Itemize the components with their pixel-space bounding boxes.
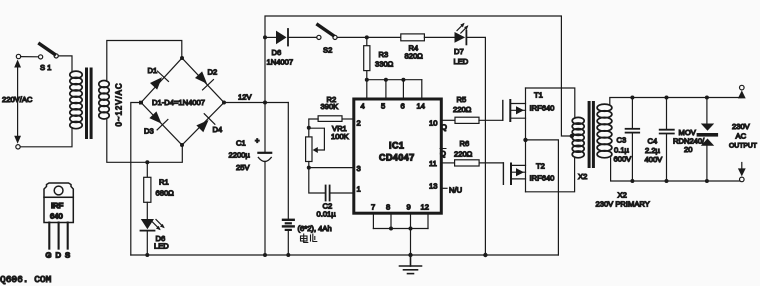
svg-text:20: 20 [684, 145, 692, 154]
wire X2 secondary top rail [610, 98, 742, 105]
resistor R1 [144, 160, 174, 218]
svg-text:D1-D4=1N4007: D1-D4=1N4007 [152, 98, 205, 107]
svg-text:G: G [46, 251, 52, 260]
resistor R5 [441, 95, 503, 123]
svg-text:220Ω: 220Ω [453, 105, 472, 114]
svg-text:330Ω: 330Ω [375, 60, 394, 69]
wire X2 secondary bottom rail [611, 158, 742, 181]
svg-text:IRF: IRF [51, 201, 64, 210]
svg-text:D2: D2 [208, 68, 218, 77]
wire T2 source to X2 bottom [526, 158, 575, 192]
node pin3 dot [307, 166, 311, 170]
svg-text:680Ω: 680Ω [156, 189, 175, 198]
svg-text:5: 5 [381, 102, 385, 111]
svg-text:10: 10 [429, 119, 437, 128]
AC source 220V [14, 54, 21, 149]
svg-text:R1: R1 [159, 178, 169, 187]
svg-text:C4: C4 [648, 137, 658, 146]
switch S2 [317, 25, 337, 55]
svg-text:IRF640: IRF640 [530, 174, 555, 183]
svg-text:2: 2 [357, 119, 361, 128]
wire 12V rail [224, 102, 288, 104]
svg-text:D6: D6 [272, 48, 282, 57]
pin 13 stub and N/U label [441, 186, 462, 195]
wire primary bottom to source [20, 129, 72, 147]
svg-text:11: 11 [429, 159, 437, 168]
svg-text:12: 12 [421, 203, 429, 212]
svg-text:Q606. COM: Q606. COM [0, 274, 52, 285]
resistor R2 [309, 95, 353, 128]
transistor T1 IRF640 [503, 88, 555, 140]
svg-text:Q: Q [441, 123, 447, 132]
svg-text:400V: 400V [645, 155, 664, 164]
svg-text:D4: D4 [213, 125, 223, 134]
wire bottom rail [131, 254, 559, 256]
svg-text:230V: 230V [732, 122, 751, 131]
transformer X2 primary winding [572, 117, 584, 157]
svg-text:OUTPUT: OUTPUT [729, 143, 757, 150]
svg-text:13: 13 [429, 182, 437, 191]
capacitor C2 [309, 168, 354, 219]
wire midpoint to bottom rail [526, 140, 559, 255]
svg-text:R6: R6 [460, 139, 470, 148]
wire secondary top to bridge top [107, 41, 182, 82]
wire T1 drain to X2 top [526, 88, 575, 118]
node dots bottom rail [145, 253, 487, 257]
svg-text:R5: R5 [457, 95, 467, 104]
svg-text:7: 7 [371, 203, 375, 212]
transformer TX1 primary winding [70, 71, 82, 129]
svg-text:(6*2), 4Ah: (6*2), 4Ah [298, 224, 332, 233]
svg-text:100K: 100K [331, 132, 349, 141]
svg-text:D1: D1 [148, 66, 158, 75]
node output terminal top [738, 85, 746, 98]
svg-text:LED: LED [154, 242, 169, 251]
svg-text:IRF640: IRF640 [530, 104, 555, 113]
capacitor C4 [645, 98, 674, 182]
svg-text:IC1: IC1 [389, 141, 404, 151]
svg-text:S: S [65, 251, 70, 260]
resistor R6 [441, 139, 503, 166]
potentiometer VR1 [306, 124, 349, 168]
svg-text:Q: Q [440, 149, 446, 158]
node dot D6 junction [263, 35, 267, 39]
svg-text:C3: C3 [617, 136, 627, 145]
diode D4 [195, 114, 215, 134]
svg-text:AC: AC [736, 132, 747, 141]
varistor MOV [673, 98, 718, 182]
svg-text:390K: 390K [321, 102, 339, 111]
transformer X2 core [588, 101, 595, 168]
svg-text:2200µ: 2200µ [229, 151, 251, 160]
ground [400, 255, 422, 274]
label 230V AC OUTPUT [729, 122, 757, 150]
svg-text:LED: LED [454, 57, 469, 66]
svg-text:8: 8 [386, 203, 390, 212]
svg-text:X2: X2 [578, 172, 587, 181]
node dots output rails [630, 96, 709, 184]
svg-text:12V: 12V [238, 93, 252, 102]
diode D3 [147, 110, 167, 130]
transistor T2 IRF640 [503, 140, 554, 192]
svg-text:820Ω: 820Ω [405, 51, 424, 60]
wire secondary bottom [107, 119, 183, 163]
svg-text:0.01µ: 0.01µ [317, 210, 337, 219]
svg-text:D3: D3 [144, 127, 154, 136]
svg-text:D7: D7 [454, 47, 464, 56]
svg-text:3: 3 [357, 164, 361, 173]
wire S1 to transformer primary [58, 56, 72, 72]
svg-text:600V: 600V [614, 155, 633, 164]
svg-text:9: 9 [407, 203, 411, 212]
node center tap dot [570, 134, 574, 138]
svg-text:S 1: S 1 [40, 63, 51, 72]
svg-text:640: 640 [50, 212, 63, 221]
resistor R4 [401, 34, 455, 60]
svg-text:D: D [56, 251, 62, 260]
svg-text:220V/AC: 220V/AC [2, 95, 33, 104]
svg-text:220Ω: 220Ω [454, 150, 473, 159]
svg-text:14: 14 [417, 102, 425, 111]
diode D2 [193, 70, 213, 90]
wire pin 3 [309, 167, 354, 169]
svg-text:0.1µ: 0.1µ [614, 146, 630, 155]
LED D6 [141, 219, 170, 255]
svg-text:R3: R3 [379, 50, 389, 59]
svg-text:25V: 25V [236, 163, 250, 172]
resistor R3 [364, 37, 394, 79]
wire top rail battery plus to X2 center tap [265, 16, 571, 136]
node Qbar label [440, 149, 446, 159]
diode D1 [148, 71, 168, 91]
svg-text:1: 1 [357, 185, 361, 194]
svg-text:4: 4 [361, 102, 365, 111]
wire bridge minus column [131, 103, 141, 256]
svg-text:2.2µ: 2.2µ [645, 146, 661, 155]
wire bus pins 4 5 6 14 [365, 78, 422, 98]
wire D7 cathode to ground rail [466, 37, 485, 255]
transformer TX1 secondary winding [99, 81, 109, 120]
svg-text:6: 6 [401, 102, 405, 111]
node dots bridge [139, 56, 226, 147]
label battery chinese [301, 234, 317, 243]
node dot 12V [263, 101, 267, 105]
transformer X2 secondary winding [597, 104, 612, 158]
node output terminal bottom [738, 163, 746, 182]
svg-text:N/U: N/U [449, 186, 462, 195]
diode D6 [265, 29, 317, 67]
svg-text:T2: T2 [536, 162, 545, 171]
transformer TX1 core [85, 68, 93, 140]
svg-text:1N4007: 1N4007 [267, 58, 294, 67]
capacitor C1 [229, 103, 272, 256]
wire pins 7 8 9 12 bus [373, 213, 428, 255]
svg-text:+: + [255, 136, 260, 145]
node midpoint dot [523, 138, 527, 142]
svg-text:0~12V/AC: 0~12V/AC [115, 82, 124, 126]
IC IC1 CD4047 body [354, 99, 442, 213]
LED D7 [454, 23, 469, 66]
switch S1 [21, 44, 59, 72]
capacitor C3 [614, 98, 640, 182]
bridge rectifier frame [141, 58, 224, 145]
svg-text:C1: C1 [236, 139, 246, 148]
svg-text:X2: X2 [618, 191, 627, 200]
svg-text:CD4047: CD4047 [379, 153, 415, 163]
label X2 230V PRIMARY [596, 191, 650, 209]
svg-text:230V PRIMARY: 230V PRIMARY [596, 200, 650, 209]
battery 12V [283, 103, 332, 256]
transistor package IRF640 TO-220 [44, 183, 73, 260]
svg-text:T1: T1 [534, 91, 543, 100]
node dot R3 top [365, 35, 369, 39]
svg-text:S2: S2 [323, 46, 332, 55]
